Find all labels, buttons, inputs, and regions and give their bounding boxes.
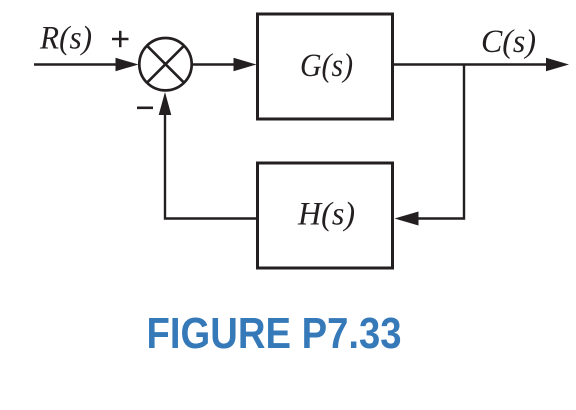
svg-text:H(s): H(s): [297, 197, 355, 233]
svg-text:C(s): C(s): [481, 24, 536, 60]
arrowhead output C(s): [546, 58, 569, 71]
arrowhead into G(s): [234, 58, 257, 71]
arrowhead into summing junction: [116, 58, 139, 71]
arrowhead up into summing junction: [159, 92, 172, 115]
wire H(s) output back to summing junction: [165, 105, 258, 219]
svg-text:G(s): G(s): [300, 48, 353, 84]
wire G(s) output to C(s): [393, 63, 550, 65]
minus sign: [137, 107, 153, 110]
wire takeoff branch down: [410, 65, 464, 219]
wire input R(s) to summing junction: [34, 63, 120, 65]
arrowhead into H(s): [395, 212, 419, 226]
wire summing junction to G(s): [192, 63, 237, 65]
block H(s): [258, 163, 393, 268]
svg-text:FIGURE P7.33: FIGURE P7.33: [147, 310, 402, 358]
summing junction X: [147, 46, 184, 83]
block G(s): [258, 14, 393, 119]
summing junction circle: [139, 38, 191, 90]
svg-text:R(s): R(s): [39, 21, 92, 57]
plus sign at summing junction: [112, 31, 129, 47]
